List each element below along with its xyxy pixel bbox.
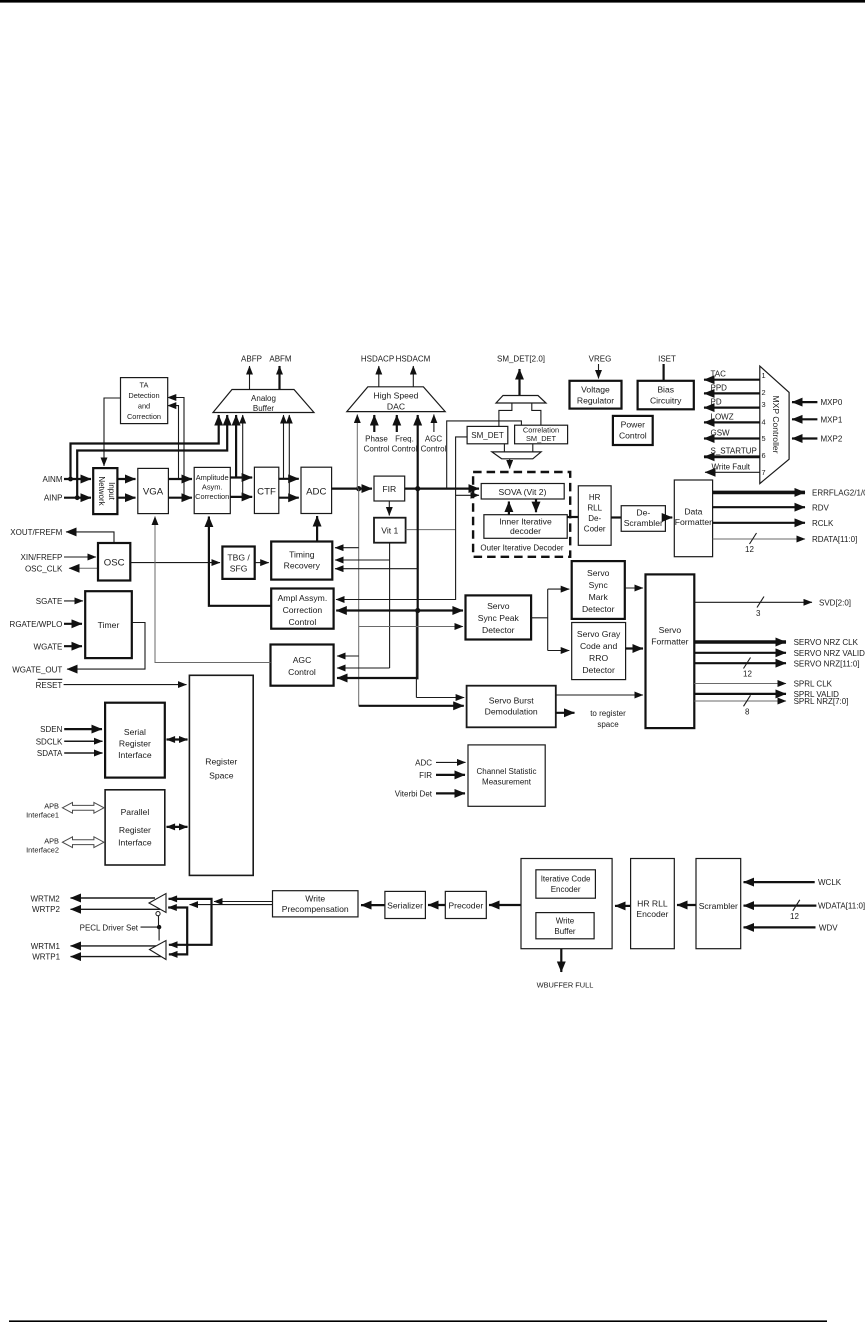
- wire SPRL VALID output: [694, 693, 786, 695]
- wire ABFM output arrow: [278, 366, 280, 390]
- junction dot ADC output: [356, 486, 361, 491]
- svg-text:RCLK: RCLK: [812, 519, 834, 528]
- svg-text:3: 3: [762, 400, 766, 409]
- svg-text:Inner Iterative: Inner Iterative: [499, 517, 552, 527]
- wire WGATE into timer: [64, 645, 82, 647]
- svg-text:ParallelRegisterInterface: ParallelRegisterInterface: [118, 807, 152, 848]
- svg-text:WRTP1: WRTP1: [32, 953, 60, 962]
- wire Vit1 tap into AGC: [337, 667, 390, 669]
- wire ISET stub: [662, 364, 664, 381]
- wire ABFP output arrow: [249, 366, 251, 390]
- svg-text:FIR: FIR: [419, 771, 432, 780]
- svg-text:12: 12: [745, 545, 754, 554]
- iterative encoder outer block: [521, 859, 612, 949]
- wire timing recovery to ADC: [316, 516, 318, 542]
- wire serializer to write precomp: [361, 904, 385, 906]
- svg-text:PhaseControl: PhaseControl: [364, 435, 390, 454]
- wire AGC control input to DAC: [433, 415, 435, 433]
- svg-text:SM_DET[2.0]: SM_DET[2.0]: [497, 355, 545, 364]
- wire SDEN input: [64, 728, 102, 730]
- serial register interface block: [105, 703, 165, 778]
- wire HSDACM output arrow: [412, 366, 414, 387]
- svg-text:HR RLL: HR RLL: [637, 899, 668, 909]
- svg-text:Control: Control: [288, 667, 316, 677]
- svg-text:Measurement: Measurement: [482, 778, 532, 787]
- servo gray code and RRO detector block: [572, 623, 626, 680]
- timer block: [85, 591, 132, 658]
- wire RCLK output: [713, 522, 805, 524]
- wire precomp distribution bus V1: [169, 899, 212, 945]
- wire serial interface to register space (bidir): [167, 738, 188, 740]
- wire FIR tap up to DAC: [417, 415, 419, 489]
- svg-text:5: 5: [762, 434, 766, 443]
- wire AINM riser to analog buffer: [71, 415, 219, 479]
- svg-text:SM_DET: SM_DET: [526, 434, 556, 443]
- svg-text:AGC: AGC: [293, 655, 312, 665]
- wire CTF to ADC (upper): [279, 478, 299, 480]
- channel statistic measurement block: [468, 745, 545, 806]
- svg-text:Write: Write: [305, 894, 325, 904]
- svg-text:7: 7: [762, 468, 766, 477]
- wire Viterbi Det stat input: [436, 792, 465, 794]
- wire LOWZ output: [704, 421, 760, 423]
- svg-text:ABFP: ABFP: [241, 355, 262, 364]
- de-scrambler block: [621, 506, 665, 532]
- wire XIN/FREFP into OSC: [64, 556, 96, 558]
- SOVA (Vit 2) block: [481, 484, 564, 500]
- ADC block: [301, 467, 332, 513]
- wire SOVA to inner: [535, 499, 537, 512]
- svg-text:Viterbi Det: Viterbi Det: [395, 790, 433, 799]
- wire FIR tap into servo burst: [416, 697, 464, 699]
- svg-text:HSDACM: HSDACM: [396, 355, 431, 364]
- svg-text:Data: Data: [684, 507, 702, 517]
- wire FIR tap vertical bus: [417, 489, 419, 611]
- svg-text:MXP2: MXP2: [821, 435, 843, 444]
- svg-text:Freq.Control: Freq.Control: [392, 435, 418, 454]
- svg-text:SDEN: SDEN: [40, 725, 62, 734]
- wire to servo gray code detector: [548, 650, 570, 652]
- precoder block: [445, 891, 486, 918]
- svg-text:Recovery: Recovery: [284, 561, 321, 571]
- svg-text:TBG /: TBG /: [227, 553, 250, 563]
- servo sync peak detector block: [466, 595, 532, 639]
- wire scrambler to HR RLL encoder: [677, 904, 696, 906]
- svg-text:to register: to register: [590, 709, 626, 718]
- wire SERVO NRZ VALID output: [694, 652, 786, 654]
- wire correlation bottom leg: [532, 444, 534, 452]
- wire write precomp output line 1: [214, 901, 273, 903]
- svg-text:Space: Space: [209, 771, 234, 781]
- svg-text:Control: Control: [619, 431, 647, 441]
- wire de-scrambler to data formatter: [665, 516, 672, 518]
- junction dot FIR bus: [415, 608, 420, 613]
- HR RLL encoder block: [631, 859, 675, 949]
- svg-text:12: 12: [790, 912, 799, 921]
- svg-text:Serializer: Serializer: [387, 901, 423, 911]
- svg-text:ABFM: ABFM: [269, 355, 292, 364]
- power control block: [613, 416, 653, 445]
- serializer block: [385, 891, 426, 918]
- svg-text:SERVO NRZ CLK: SERVO NRZ CLK: [794, 638, 859, 647]
- wire WRTM2 output: [71, 897, 156, 899]
- svg-text:MXP0: MXP0: [821, 398, 843, 407]
- wire VGA to Amplitude Asym (lower): [168, 497, 192, 499]
- svg-text:WCLK: WCLK: [818, 878, 842, 887]
- svg-text:WRTP2: WRTP2: [32, 905, 60, 914]
- wire GSW output: [704, 437, 760, 439]
- wire mux leg to correlation SM_DET: [532, 403, 541, 425]
- wire AGC control to VGA: [155, 517, 271, 663]
- wire XOUT/FREFM from OSC: [66, 532, 114, 543]
- wire OSC to TBG/SFG: [130, 562, 220, 564]
- svg-text:SDATA: SDATA: [37, 749, 63, 758]
- svg-text:Regulator: Regulator: [577, 396, 614, 406]
- wire PECL set vertical to both drivers: [158, 916, 161, 941]
- wire AAC to CTF (upper): [230, 476, 252, 478]
- data formatter block: [674, 480, 712, 557]
- wire PPD output: [704, 392, 760, 394]
- svg-text:XIN/FREFP: XIN/FREFP: [21, 553, 63, 562]
- wire AINP into Input Network: [64, 497, 91, 499]
- svg-text:SDCLK: SDCLK: [36, 737, 63, 746]
- svg-text:AINM: AINM: [43, 475, 63, 484]
- wire RDV output: [713, 506, 805, 508]
- svg-text:SOVA (Vit 2): SOVA (Vit 2): [499, 487, 547, 497]
- svg-text:OSC: OSC: [104, 558, 125, 569]
- Vit 1 block: [374, 518, 406, 543]
- wire Vit1 right output to control bus: [406, 529, 456, 531]
- svg-text:Write: Write: [556, 917, 575, 926]
- wire riser CTF-ADC lower to analog buffer: [288, 415, 290, 498]
- wire sync mark to servo formatter: [625, 587, 643, 589]
- svg-text:1: 1: [762, 371, 766, 380]
- wire WBUFFER FULL output: [560, 949, 562, 972]
- wire ADC tap into timing recovery: [335, 547, 359, 549]
- wire WRTP2 output: [71, 908, 161, 910]
- svg-text:S_STARTUP: S_STARTUP: [711, 447, 757, 456]
- svg-text:Formatter: Formatter: [675, 517, 712, 527]
- wire HSDACP output arrow: [378, 366, 380, 387]
- svg-text:WBUFFER FULL: WBUFFER FULL: [537, 981, 594, 990]
- wire AAC to CTF (lower): [230, 496, 252, 498]
- svg-text:AGCControl: AGCControl: [421, 435, 447, 454]
- wire FIR stat input: [436, 774, 465, 776]
- wire FIR tap into timing recovery: [335, 568, 418, 570]
- wire timer to WGATE_OUT: [67, 623, 145, 670]
- APB interface1 hollow bidir arrow: [62, 802, 104, 813]
- wire WCLK input: [744, 881, 815, 883]
- wire servo sync peak output tee: [531, 589, 548, 650]
- svg-text:Buffer: Buffer: [253, 404, 275, 413]
- svg-text:Servo Burst: Servo Burst: [489, 696, 535, 706]
- svg-text:WRTM1: WRTM1: [31, 942, 61, 951]
- wire SM_DET left output bus: [336, 437, 467, 600]
- svg-text:APB: APB: [44, 802, 59, 811]
- wire AINM into Input Network: [64, 478, 91, 480]
- svg-text:WDV: WDV: [819, 924, 838, 933]
- wire to servo sync mark detector: [548, 588, 570, 590]
- wire ADC tap into AGC: [337, 655, 359, 657]
- svg-text:VGA: VGA: [143, 487, 164, 498]
- bottom border rule: [9, 1320, 827, 1322]
- wire TA input 2 (tap from VGA upper output): [168, 406, 179, 479]
- junction dot FIR output: [415, 486, 420, 491]
- wire S_STARTUP output: [704, 455, 760, 458]
- OSC block: [98, 543, 130, 581]
- ampl assym correction control block: [271, 589, 333, 629]
- svg-text:SERVO NRZ VALID: SERVO NRZ VALID: [794, 649, 865, 658]
- wire encoder block to precoder: [489, 904, 521, 906]
- voltage regulator block: [570, 381, 622, 409]
- wire SM_DET bottom leg: [503, 444, 505, 452]
- svg-text:WRTM2: WRTM2: [31, 895, 61, 904]
- wire inner decoder to HR RLL decoder: [567, 516, 578, 518]
- svg-text:12: 12: [743, 670, 752, 679]
- wire servo burst to register space note: [556, 712, 575, 714]
- svg-text:Circuitry: Circuitry: [650, 396, 682, 406]
- wire PD output: [704, 407, 760, 409]
- wire gray code to servo formatter: [626, 647, 643, 649]
- wire mux to outer iterative decoder: [509, 459, 511, 469]
- wire SPRL NRZ[7:0] output: [694, 700, 786, 702]
- mux upper (SM_DET select): [496, 396, 546, 404]
- wire Vit1 bottom output bus: [389, 543, 391, 668]
- wire RGATE/WPLO into timer: [64, 623, 82, 625]
- svg-text:Voltage: Voltage: [581, 385, 610, 395]
- wire freq control input: [396, 415, 398, 432]
- svg-text:ISET: ISET: [658, 355, 676, 364]
- svg-text:WGATE_OUT: WGATE_OUT: [12, 665, 62, 674]
- svg-text:Iterative Code: Iterative Code: [541, 875, 591, 884]
- svg-text:PECL Driver Set: PECL Driver Set: [80, 923, 139, 932]
- svg-text:Formatter: Formatter: [651, 637, 688, 647]
- svg-text:CTF: CTF: [257, 487, 276, 498]
- wire ERRFLAG2/1/0 output: [713, 491, 805, 495]
- wire WRTP1 output: [71, 956, 162, 958]
- svg-text:XOUT/FREFM: XOUT/FREFM: [10, 528, 62, 537]
- wire ADC tap up to DAC (phase): [356, 415, 358, 489]
- wire precoder to serializer: [428, 904, 445, 906]
- svg-text:VREG: VREG: [589, 355, 612, 364]
- svg-text:RDV: RDV: [812, 503, 830, 512]
- wire ADC output to FIR: [332, 488, 372, 490]
- iterative code encoder block: [536, 870, 596, 898]
- wire TA input 1 (tap from VGA lower output): [168, 398, 184, 498]
- wire riser CTF-ADC upper to analog buffer: [283, 415, 285, 479]
- svg-text:ADC: ADC: [306, 487, 326, 498]
- svg-text:WGATE: WGATE: [34, 642, 63, 651]
- svg-text:TAC: TAC: [711, 370, 727, 379]
- svg-text:Precoder: Precoder: [448, 901, 483, 911]
- wire SVD[2:0] output: [694, 601, 812, 603]
- wire ADC tap into servo sync peak: [359, 626, 463, 628]
- bus slash SPRL NRZ: [744, 695, 751, 706]
- wire FIR tap lower thin segment: [415, 610, 417, 697]
- wire mux leg to SM_DET: [499, 403, 512, 426]
- svg-text:Outer Iterative Decoder: Outer Iterative Decoder: [480, 544, 563, 553]
- analog buffer U-AB: [213, 390, 314, 414]
- top border rule: [0, 0, 865, 3]
- svg-text:RGATE/WPLO: RGATE/WPLO: [10, 620, 63, 629]
- svg-text:Encoder: Encoder: [551, 885, 581, 894]
- svg-text:OSC_CLK: OSC_CLK: [25, 565, 63, 574]
- svg-text:LOWZ: LOWZ: [711, 413, 734, 422]
- AGC control block: [271, 645, 334, 686]
- svg-text:SM_DET: SM_DET: [471, 431, 504, 440]
- wire Input Network to VGA (upper): [117, 478, 135, 480]
- wire MXP0 input: [792, 401, 817, 403]
- wire AINP riser to analog buffer: [77, 415, 227, 498]
- APB interface2 hollow bidir arrow: [62, 837, 104, 848]
- svg-text:Servo: Servo: [659, 625, 682, 635]
- svg-text:RESET: RESET: [36, 681, 63, 690]
- svg-text:Interface1: Interface1: [26, 810, 59, 819]
- junction dot AINP: [75, 495, 80, 500]
- svg-text:Register: Register: [205, 757, 237, 767]
- wire ADC tap into servo burst: [359, 705, 464, 707]
- svg-text:ADC: ADC: [415, 759, 432, 768]
- wire FIR to Vit 1: [388, 501, 390, 516]
- MXP controller block: [760, 366, 789, 484]
- wire ADC tap vertical bus: [358, 489, 360, 706]
- svg-text:Encoder: Encoder: [636, 909, 668, 919]
- wire SM_DET[2.0] output arrow: [518, 369, 520, 396]
- wire TA output to Input Network: [104, 398, 121, 466]
- bias circuitry block: [638, 381, 694, 410]
- wire write fault output: [705, 471, 760, 473]
- svg-text:Bias: Bias: [657, 385, 674, 395]
- wire OSC_CLK output: [69, 567, 98, 569]
- wire SPRL CLK output: [694, 683, 786, 685]
- wire HR RLL to de-scrambler: [611, 516, 621, 518]
- timing recovery block: [271, 542, 332, 580]
- scrambler block: [696, 859, 741, 949]
- input network block: [93, 468, 117, 514]
- servo burst demodulation block: [467, 686, 556, 728]
- svg-text:Buffer: Buffer: [554, 927, 576, 936]
- write precompensation block: [273, 891, 359, 917]
- bus slash RDATA: [750, 533, 757, 544]
- wire SM_DET bus branch to SOVA: [456, 494, 479, 496]
- FIR block: [374, 476, 405, 501]
- bus slash WDATA: [793, 900, 800, 911]
- wire Input Network to VGA (lower): [117, 497, 135, 499]
- wire FIR tap into AGC: [337, 677, 418, 679]
- PECL driver enable bubble: [156, 912, 160, 916]
- svg-text:Analog: Analog: [251, 394, 276, 403]
- svg-text:High Speed: High Speed: [374, 391, 419, 401]
- svg-text:SERVO NRZ[11:0]: SERVO NRZ[11:0]: [794, 659, 860, 668]
- wire TAC output: [704, 379, 760, 381]
- SM_DET block: [467, 426, 508, 443]
- wire Vit1 tap into timing recovery: [335, 559, 390, 561]
- svg-text:3: 3: [756, 609, 761, 618]
- wire SERVO NRZ[11:0] output: [694, 662, 786, 664]
- svg-text:GSW: GSW: [711, 429, 731, 438]
- write buffer block: [536, 913, 594, 939]
- svg-text:space: space: [597, 720, 619, 729]
- servo sync mark detector block: [572, 561, 625, 619]
- svg-text:8: 8: [745, 708, 750, 717]
- svg-text:FIR: FIR: [382, 484, 396, 494]
- PECL driver lower triangle Q-B: [150, 941, 167, 960]
- wire phase control input: [373, 415, 375, 432]
- svg-text:SGATE: SGATE: [36, 597, 63, 606]
- amplitude asym correction block: [194, 467, 230, 513]
- svg-text:ERRFLAG2/1/0: ERRFLAG2/1/0: [812, 489, 865, 498]
- svg-text:HSDACP: HSDACP: [361, 355, 394, 364]
- wire ampl assym control to AAC block: [209, 517, 271, 606]
- svg-text:Interface2: Interface2: [26, 845, 59, 854]
- svg-text:MXP Controller: MXP Controller: [771, 395, 781, 453]
- svg-text:SVD[2:0]: SVD[2:0]: [819, 598, 851, 607]
- svg-text:2: 2: [762, 388, 766, 397]
- wire FIR tap to correlation SM_DET input: [447, 421, 522, 489]
- svg-text:MXP1: MXP1: [821, 415, 843, 424]
- HR RLL de-coder block: [578, 486, 611, 546]
- svg-text:SFG: SFG: [230, 564, 248, 574]
- wire SERVO NRZ CLK output: [694, 640, 786, 644]
- svg-text:Channel Statistic: Channel Statistic: [476, 767, 536, 776]
- RESET overline: [38, 678, 63, 680]
- wire SDATA input: [64, 752, 102, 754]
- svg-text:SPRL NRZ[7:0]: SPRL NRZ[7:0]: [794, 697, 849, 706]
- bus slash SERVO NRZ: [744, 658, 751, 669]
- wire ADC stat input: [436, 761, 466, 763]
- high speed DAC block: [347, 387, 445, 412]
- wire MXP2 input: [792, 437, 817, 439]
- TA Detection and Correction block: [121, 378, 168, 424]
- svg-text:Vit 1: Vit 1: [381, 526, 398, 536]
- svg-text:SPRL CLK: SPRL CLK: [794, 680, 833, 689]
- svg-text:Scrambler: Scrambler: [624, 518, 663, 528]
- TBG/SFG block: [222, 547, 254, 579]
- VGA block: [138, 468, 169, 513]
- wire servo burst to servo formatter: [556, 694, 643, 696]
- wire WDV input: [744, 926, 816, 928]
- wire VREG input arrow: [598, 364, 600, 379]
- svg-text:PPD: PPD: [711, 384, 728, 393]
- register space block: [189, 675, 253, 875]
- wire precomp distribution bus V2: [168, 908, 187, 955]
- svg-text:4: 4: [762, 418, 766, 427]
- svg-text:Scrambler: Scrambler: [699, 901, 738, 911]
- wire write precomp output line 2: [190, 904, 273, 906]
- wire riser AAC-CTF lower to analog buffer: [242, 415, 244, 497]
- svg-text:Demodulation: Demodulation: [485, 707, 538, 717]
- wire MXP1 input: [792, 418, 817, 420]
- svg-text:WDATA[11:0]: WDATA[11:0]: [818, 902, 865, 911]
- svg-text:Write Fault: Write Fault: [712, 463, 751, 472]
- svg-text:AINP: AINP: [44, 494, 63, 503]
- junction dot AINM: [68, 477, 73, 482]
- wire WDATA input: [744, 904, 817, 906]
- svg-text:RDATA[11:0]: RDATA[11:0]: [812, 535, 857, 544]
- correlation SM_DET block: [515, 425, 568, 444]
- svg-text:decoder: decoder: [510, 526, 541, 536]
- wire FIR output to SOVA: [405, 488, 479, 490]
- wire CTF to ADC (lower): [279, 497, 299, 499]
- wire PECL driver set line: [141, 926, 160, 928]
- wire WRTM1 output: [71, 945, 157, 947]
- mux lower (detector combine): [492, 452, 541, 459]
- svg-text:Timing: Timing: [289, 550, 315, 560]
- svg-text:Power: Power: [621, 420, 645, 430]
- junction dot PECL set: [157, 925, 161, 929]
- wire HR RLL encoder to iterative encoder: [615, 905, 631, 907]
- svg-text:PD: PD: [711, 398, 722, 407]
